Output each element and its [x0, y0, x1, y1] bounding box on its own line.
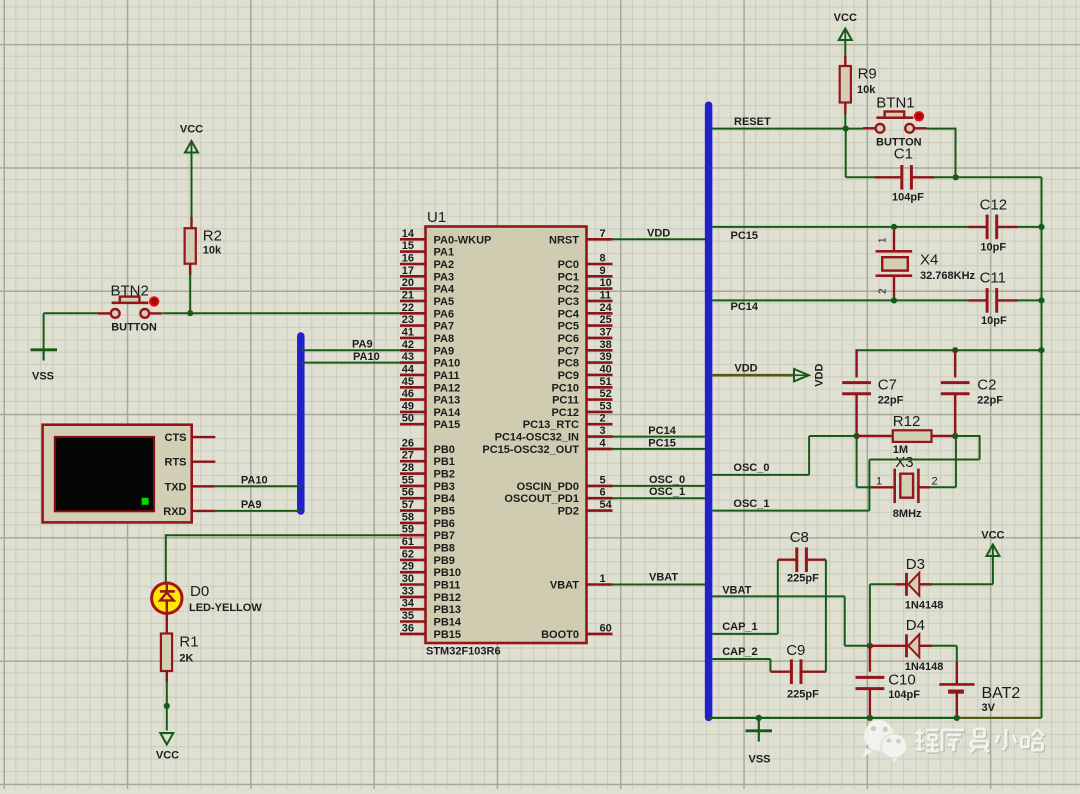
svg-text:62: 62 [402, 548, 414, 560]
svg-text:RXD: RXD [163, 506, 186, 518]
svg-text:39: 39 [600, 351, 612, 363]
wire X3 pin1 branch [856, 436, 858, 487]
pin 11 (PC3) [558, 289, 613, 308]
svg-text:R2: R2 [203, 228, 222, 245]
wire OSC_0 from bus [712, 436, 857, 475]
watermark wechat logo [863, 720, 907, 763]
virtual terminal [43, 425, 192, 523]
wire BTN1 right to corner [927, 128, 956, 130]
pin 33 (PB12) [400, 585, 461, 604]
svg-text:PC10: PC10 [551, 382, 579, 394]
pin 55 (PB3) [400, 474, 455, 493]
ground VSS (bottom right) [746, 718, 773, 766]
svg-text:44: 44 [402, 363, 415, 375]
capacitor C7 [842, 349, 903, 436]
svg-text:24: 24 [600, 302, 613, 314]
svg-text:45: 45 [402, 376, 414, 388]
svg-text:C11: C11 [980, 270, 1006, 287]
svg-text:PB0: PB0 [434, 444, 455, 456]
svg-text:PB2: PB2 [434, 469, 455, 481]
power flag VCC (bottom, pointing down) [156, 733, 179, 762]
svg-text:23: 23 [402, 314, 414, 326]
junction RESET/R9 [843, 126, 849, 132]
pin 9 (PC1) [558, 265, 613, 284]
svg-text:PA9: PA9 [241, 499, 262, 511]
pin 23 (PA7) [400, 314, 454, 333]
svg-text:9: 9 [600, 265, 606, 277]
svg-text:C1: C1 [894, 146, 913, 163]
pin 52 (PC11) [552, 388, 612, 407]
svg-text:2: 2 [878, 288, 889, 294]
svg-text:OSC_0: OSC_0 [733, 462, 769, 474]
svg-text:PB10: PB10 [434, 567, 462, 579]
svg-text:22: 22 [402, 302, 414, 314]
svg-text:10pF: 10pF [981, 315, 1007, 327]
svg-text:1: 1 [600, 573, 606, 585]
svg-text:PB13: PB13 [434, 604, 462, 616]
svg-text:PA9: PA9 [434, 345, 455, 357]
svg-text:VBAT: VBAT [722, 584, 751, 596]
svg-text:R1: R1 [179, 634, 198, 651]
svg-text:C7: C7 [878, 377, 897, 394]
svg-text:VCC: VCC [180, 124, 203, 136]
junction R12 right [952, 433, 958, 439]
capacitor C9 [770, 642, 826, 701]
bus (right vertical) [705, 105, 713, 717]
svg-text:PC5: PC5 [558, 321, 579, 333]
svg-text:VSS: VSS [748, 754, 770, 766]
crystal X4 [876, 230, 976, 297]
svg-text:PA4: PA4 [434, 284, 455, 296]
svg-text:C2: C2 [977, 377, 996, 394]
resistor R12 [857, 413, 956, 456]
svg-text:52: 52 [600, 388, 612, 400]
svg-text:PC15-OSC32_OUT: PC15-OSC32_OUT [482, 444, 579, 456]
watermark text [917, 730, 1045, 753]
svg-text:PA14: PA14 [434, 407, 462, 419]
svg-text:PC0: PC0 [558, 259, 579, 271]
junction top rail right [1038, 347, 1044, 353]
wire VBAT to bus [613, 572, 706, 585]
svg-text:D0: D0 [190, 583, 209, 600]
power arrow VDD (pointing right) [794, 364, 826, 387]
wire RXD to bus (net PA9) [215, 499, 300, 511]
pin 10 (PC2) [558, 277, 613, 296]
svg-text:59: 59 [402, 524, 414, 536]
svg-text:VBAT: VBAT [649, 572, 678, 584]
svg-text:104pF: 104pF [892, 192, 924, 204]
svg-text:PA3: PA3 [434, 271, 455, 283]
svg-text:55: 55 [402, 474, 414, 486]
svg-text:7: 7 [600, 228, 606, 240]
svg-text:57: 57 [402, 499, 414, 511]
pin 24 (PC4) [558, 302, 613, 321]
svg-text:PB12: PB12 [434, 592, 462, 604]
pin 6 (OSCOUT_PD1) [504, 487, 612, 506]
svg-text:RESET: RESET [734, 116, 771, 128]
capacitor C1 [875, 146, 934, 204]
svg-text:VDD: VDD [734, 362, 757, 374]
svg-text:BAT2: BAT2 [982, 685, 1021, 702]
svg-text:OSC_1: OSC_1 [649, 486, 685, 498]
svg-text:104pF: 104pF [888, 689, 920, 701]
wire PC15-OSC32_OUT to bus [613, 437, 706, 449]
pin 43 (PA10) [400, 351, 460, 370]
svg-text:50: 50 [402, 413, 414, 425]
svg-text:4: 4 [600, 437, 607, 449]
pin 50 (PA15) [400, 413, 460, 432]
svg-text:56: 56 [402, 487, 414, 499]
svg-text:PA2: PA2 [434, 259, 455, 271]
pin 34 (PB13) [400, 598, 461, 617]
push button BTN2 [98, 283, 162, 334]
svg-text:21: 21 [402, 289, 414, 301]
svg-text:8MHz: 8MHz [893, 508, 922, 520]
svg-text:37: 37 [600, 326, 612, 338]
pin 51 (PC10) [551, 376, 612, 395]
svg-text:TXD: TXD [165, 481, 187, 493]
svg-text:VCC: VCC [156, 750, 179, 762]
svg-text:U1: U1 [427, 209, 446, 226]
junction PC15/X4 pin1 [891, 224, 897, 230]
LED D0 [152, 583, 263, 614]
pin 56 (PB4) [400, 487, 456, 506]
svg-text:VCC: VCC [981, 530, 1004, 542]
svg-text:22pF: 22pF [878, 395, 904, 407]
svg-text:PA15: PA15 [434, 419, 461, 431]
wire VBAT from bus [712, 584, 870, 645]
svg-text:PB14: PB14 [434, 617, 462, 629]
pin 16 (PA2) [400, 253, 454, 272]
svg-text:VBAT: VBAT [550, 580, 579, 592]
svg-text:PB1: PB1 [434, 456, 455, 468]
wire OSCOUT_PD1 to bus (net OSC_1) [613, 486, 706, 498]
power flag VCC (above R9) [834, 12, 857, 42]
pin 61 (PB8) [400, 536, 455, 555]
pin 58 (PB6) [400, 511, 455, 530]
svg-text:PA12: PA12 [434, 382, 461, 394]
pin 59 (PB7) [400, 524, 455, 543]
svg-text:PC13_RTC: PC13_RTC [523, 419, 579, 431]
diode D3 [896, 556, 944, 612]
svg-text:PA7: PA7 [434, 321, 455, 333]
pin 38 (PC7) [558, 339, 613, 358]
svg-text:VDD: VDD [814, 364, 826, 387]
pin 46 (PA13) [400, 388, 460, 407]
svg-text:30: 30 [402, 573, 414, 585]
svg-text:C10: C10 [888, 672, 916, 689]
wire R9 to RESET node [844, 103, 846, 115]
svg-text:33: 33 [402, 585, 414, 597]
svg-text:29: 29 [402, 561, 414, 573]
power flag VCC (top left) [180, 124, 203, 155]
pin 41 (PA8) [400, 326, 454, 345]
wire PA6 net right segment [162, 312, 400, 314]
svg-text:LED-YELLOW: LED-YELLOW [189, 602, 262, 614]
svg-text:PC15: PC15 [731, 230, 759, 242]
pin 14 (PA0-WKUP) [400, 228, 491, 247]
svg-text:D4: D4 [906, 617, 925, 634]
svg-text:5: 5 [600, 474, 606, 486]
wire junction up to D3 [869, 584, 871, 646]
svg-text:PA10: PA10 [353, 351, 380, 363]
svg-text:11: 11 [600, 289, 612, 301]
svg-text:17: 17 [402, 265, 414, 277]
svg-text:20: 20 [402, 277, 414, 289]
svg-text:PA10: PA10 [434, 358, 461, 370]
wire NRST to bus (net VDD) [613, 228, 706, 240]
wire X3 pin2 up to R12 right [930, 486, 956, 488]
pin 62 (PB9) [400, 548, 455, 567]
junction below R1 [164, 703, 170, 709]
pin 4 (PC15-OSC32_OUT) [482, 437, 612, 456]
capacitor C8 [778, 529, 826, 585]
wire D3 to VCC [931, 583, 993, 585]
capacitor C2 [941, 349, 1003, 436]
pin 28 (PB2) [400, 462, 455, 481]
svg-text:PB7: PB7 [434, 530, 455, 542]
capacitor C11 [969, 270, 1042, 328]
pin 60 (BOOT0) [541, 622, 612, 641]
wire R1 to VCC [166, 671, 168, 682]
pin 30 (PB11) [400, 573, 460, 592]
svg-text:38: 38 [600, 339, 612, 351]
svg-text:PB3: PB3 [434, 481, 455, 493]
wire R2 to node [189, 264, 191, 275]
wire X4 pin2 to PC14 [893, 296, 895, 300]
pin 15 (PA1) [400, 240, 454, 259]
wire PA10 to bus [301, 351, 401, 363]
svg-text:53: 53 [600, 400, 612, 412]
svg-text:26: 26 [402, 437, 414, 449]
svg-text:PC15: PC15 [648, 437, 676, 449]
svg-text:PA6: PA6 [434, 308, 455, 320]
svg-text:2: 2 [600, 413, 606, 425]
svg-text:49: 49 [402, 400, 414, 412]
svg-text:PA0-WKUP: PA0-WKUP [434, 234, 492, 246]
wire CAP_2 from bus [712, 646, 770, 672]
pin 49 (PA14) [400, 400, 461, 419]
svg-text:16: 16 [402, 253, 414, 265]
svg-text:BTN2: BTN2 [111, 283, 149, 300]
resistor R1 [161, 634, 199, 672]
wire PA6 net left segment [44, 312, 99, 314]
svg-text:PA8: PA8 [434, 333, 455, 345]
svg-text:51: 51 [600, 376, 612, 388]
svg-text:OSCOUT_PD1: OSCOUT_PD1 [504, 493, 579, 505]
wire D4 to BAT2 [931, 645, 957, 647]
wire RESET node down to C1 [845, 129, 847, 178]
svg-text:PA13: PA13 [434, 395, 461, 407]
svg-text:PC2: PC2 [558, 284, 579, 296]
pin CTS stub [192, 436, 216, 438]
pin 53 (PC12) [551, 400, 612, 419]
right vertical rail [1041, 177, 1043, 718]
svg-text:PA9: PA9 [352, 339, 373, 351]
svg-text:58: 58 [402, 511, 414, 523]
pin 54 (PD2) [558, 499, 613, 517]
pin 27 (PB1) [400, 450, 455, 469]
wire VDD from bus [712, 362, 794, 375]
svg-text:PC11: PC11 [552, 395, 579, 407]
svg-text:34: 34 [402, 598, 415, 610]
bus (left vertical) [297, 336, 305, 511]
svg-text:BUTTON: BUTTON [111, 322, 157, 334]
svg-text:PB4: PB4 [434, 493, 456, 505]
svg-text:22pF: 22pF [977, 395, 1003, 407]
wire VCC to R9 [844, 40, 846, 57]
svg-text:PB9: PB9 [434, 555, 455, 567]
resistor R9 [840, 66, 877, 103]
wire C8 right down to C9 [825, 560, 827, 672]
svg-text:PB11: PB11 [434, 580, 461, 592]
wire PB7 to LED [166, 534, 401, 536]
svg-text:PC1: PC1 [558, 271, 579, 283]
wire BTN2 to ground [43, 313, 45, 350]
pin 45 (PA12) [400, 376, 460, 395]
pin 1 (VBAT) [550, 573, 613, 592]
svg-text:1N4148: 1N4148 [905, 600, 944, 612]
svg-text:VCC: VCC [834, 12, 857, 24]
svg-text:CAP_2: CAP_2 [722, 646, 757, 658]
svg-text:54: 54 [600, 499, 613, 511]
svg-text:61: 61 [402, 536, 414, 548]
wire VCC to R2 [191, 153, 193, 218]
svg-text:225pF: 225pF [787, 689, 819, 701]
junction ground/VSS [756, 715, 762, 721]
svg-text:C9: C9 [786, 642, 805, 659]
svg-text:PD2: PD2 [558, 506, 579, 518]
pin 25 (PC5) [558, 314, 613, 333]
svg-text:C8: C8 [790, 529, 809, 546]
svg-text:C12: C12 [980, 197, 1008, 214]
svg-text:36: 36 [402, 622, 414, 634]
pin 8 (PC0) [558, 253, 613, 272]
svg-text:OSCIN_PD0: OSCIN_PD0 [517, 481, 579, 493]
svg-text:41: 41 [402, 326, 414, 338]
svg-text:35: 35 [402, 610, 414, 622]
pin RXD stub [192, 510, 216, 512]
svg-text:60: 60 [600, 622, 612, 634]
pin 44 (PA11) [400, 363, 460, 382]
svg-text:PB5: PB5 [434, 506, 455, 518]
svg-text:D3: D3 [906, 556, 925, 573]
svg-text:OSC_1: OSC_1 [733, 498, 769, 510]
pin 40 (PC9) [558, 363, 613, 382]
ground VSS (left) [31, 350, 58, 383]
pin 39 (PC8) [558, 351, 613, 370]
wire C7/C2 top rail [857, 349, 1042, 351]
pin 5 (OSCIN_PD0) [517, 474, 613, 493]
svg-text:NRST: NRST [549, 234, 579, 246]
svg-text:PC14: PC14 [731, 301, 759, 313]
pin 20 (PA4) [400, 277, 455, 296]
svg-text:PA10: PA10 [241, 474, 268, 486]
pin 7 (NRST) [549, 228, 612, 247]
junction C2 top [952, 347, 958, 353]
wire OSC_1 from bus [712, 435, 979, 511]
svg-text:PA5: PA5 [434, 296, 455, 308]
junction VBAT/D4/C10 [867, 643, 873, 649]
svg-text:10k: 10k [203, 245, 222, 257]
pin 26 (PB0) [400, 437, 455, 456]
junction ground/C10 [867, 715, 873, 721]
pin 2 (PC13_RTC) [523, 413, 613, 432]
pin 17 (PA3) [400, 265, 454, 284]
svg-text:STM32F103R6: STM32F103R6 [426, 646, 501, 658]
pin 22 (PA6) [400, 302, 454, 321]
junction C1 right [953, 174, 959, 180]
svg-text:3V: 3V [982, 702, 996, 714]
svg-text:PA1: PA1 [434, 247, 455, 259]
svg-text:R12: R12 [893, 413, 921, 430]
svg-text:14: 14 [402, 228, 415, 240]
svg-text:6: 6 [600, 487, 606, 499]
svg-text:10: 10 [600, 277, 612, 289]
capacitor C10 [856, 646, 921, 718]
svg-text:225pF: 225pF [787, 573, 819, 585]
pin 57 (PB5) [400, 499, 455, 517]
wire OSCIN_PD0 to bus (net OSC_0) [613, 474, 706, 486]
svg-text:PB6: PB6 [434, 518, 455, 530]
svg-text:PC8: PC8 [558, 358, 579, 370]
svg-text:PC12: PC12 [551, 407, 579, 419]
svg-text:3: 3 [600, 425, 606, 437]
svg-text:R9: R9 [858, 66, 877, 83]
junction PC14/X4 pin2 [891, 297, 897, 303]
wire C1 junction to right rail [956, 176, 1042, 178]
svg-text:PC7: PC7 [558, 345, 579, 357]
svg-text:PC14-OSC32_IN: PC14-OSC32_IN [495, 432, 579, 444]
svg-text:40: 40 [600, 363, 612, 375]
pin RTS stub [192, 461, 216, 463]
junction C11 right rail [1038, 297, 1044, 303]
push button BTN1 [863, 95, 927, 149]
svg-text:10pF: 10pF [980, 242, 1006, 254]
svg-text:PC9: PC9 [558, 370, 579, 382]
crystal X3 [871, 454, 938, 520]
pin 37 (PC6) [558, 326, 613, 345]
svg-text:CAP_1: CAP_1 [722, 621, 757, 633]
ground rail (bottom) [709, 717, 957, 719]
svg-text:BTN1: BTN1 [876, 95, 914, 112]
battery BAT2 [939, 662, 1020, 718]
svg-text:PB8: PB8 [434, 543, 455, 555]
wire LED to R1 [166, 614, 168, 635]
wire CAP_1 from bus [712, 560, 778, 634]
pin 42 (PA9) [400, 339, 454, 358]
pin 35 (PB14) [400, 610, 462, 629]
diode D4 [870, 617, 943, 673]
svg-text:2K: 2K [179, 653, 193, 665]
svg-text:RTS: RTS [165, 457, 187, 469]
svg-text:VDD: VDD [647, 228, 670, 240]
capacitor C12 [969, 197, 1042, 254]
svg-text:42: 42 [402, 339, 414, 351]
svg-text:46: 46 [402, 388, 414, 400]
wire PC15 from bus to C12/X4 [712, 227, 968, 242]
pin 3 (PC14-OSC32_IN) [495, 425, 613, 444]
wire C1 right [933, 176, 956, 178]
svg-text:2: 2 [932, 475, 938, 487]
power flag VCC (right of D3) [981, 530, 1004, 559]
svg-text:OSC_0: OSC_0 [649, 474, 685, 486]
junction R12 left [854, 433, 860, 439]
svg-text:PC14: PC14 [648, 425, 676, 437]
svg-text:BOOT0: BOOT0 [541, 629, 579, 641]
svg-text:32.768KHz: 32.768KHz [920, 270, 976, 282]
svg-text:PC3: PC3 [558, 296, 579, 308]
